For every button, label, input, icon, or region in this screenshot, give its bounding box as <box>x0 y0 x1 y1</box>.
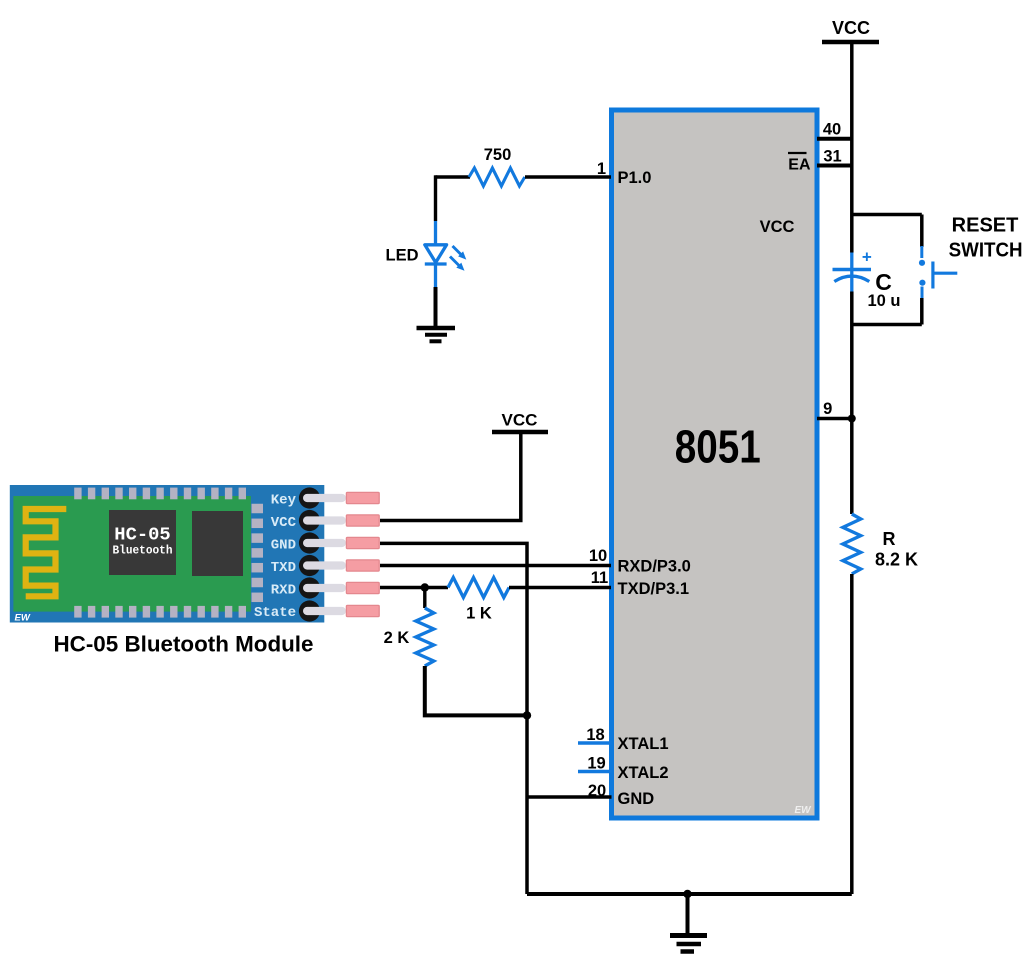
svg-text:8051: 8051 <box>675 421 761 473</box>
svg-text:10 u: 10 u <box>867 292 900 310</box>
wire LED vertical <box>434 175 437 221</box>
svg-text:GND: GND <box>271 537 296 553</box>
wire VCC left to module <box>380 432 521 521</box>
pin number 19 <box>587 755 605 773</box>
IC pin label EA (active low) <box>788 153 811 174</box>
pin 31 stub <box>817 164 852 168</box>
value 1 K <box>466 605 492 623</box>
capacitor C1 polarized <box>833 253 872 292</box>
svg-text:TXD/P3.1: TXD/P3.1 <box>618 580 690 598</box>
svg-text:XTAL2: XTAL2 <box>618 764 669 782</box>
IC pin label RXD/P3.0 <box>618 558 691 576</box>
svg-text:Key: Key <box>271 492 297 508</box>
wire VCC vertical lower <box>850 574 854 894</box>
resistor R1 8.2K <box>843 514 861 574</box>
HC-05 chip 1 <box>109 510 176 575</box>
IC label 8051 <box>675 421 761 473</box>
svg-text:P1.0: P1.0 <box>618 169 652 187</box>
value 750 <box>484 146 512 164</box>
HC-05 top pads <box>74 488 246 500</box>
pin number 10 <box>589 547 607 565</box>
svg-text:XTAL1: XTAL1 <box>618 735 669 753</box>
svg-text:1: 1 <box>597 160 606 178</box>
HC-05 chip 2 <box>192 511 243 576</box>
switch S1 pushbutton <box>919 246 957 298</box>
wire P1.0 horizontal right <box>525 175 611 178</box>
pin number 9 <box>823 400 832 418</box>
svg-text:HC-05 Bluetooth Module: HC-05 Bluetooth Module <box>54 632 314 657</box>
HC-05 bottom pads <box>74 606 246 618</box>
svg-text:11: 11 <box>591 569 608 587</box>
svg-text:40: 40 <box>823 121 841 139</box>
wire reset branch bottom <box>852 323 922 327</box>
junction pin 9 <box>848 415 856 423</box>
HC-05 header pin Key <box>299 487 379 508</box>
svg-text:SWITCH: SWITCH <box>949 240 1023 262</box>
wire 2K upper lead <box>423 588 426 609</box>
power VCC left symbol <box>492 411 548 433</box>
HC-05 header pin RXD <box>299 577 379 598</box>
HC-05 header pin State <box>299 600 379 621</box>
IC pin label GND <box>618 790 655 808</box>
wire P1.0 horizontal left <box>436 175 471 178</box>
svg-text:EA: EA <box>788 157 811 174</box>
svg-text:RXD/P3.0: RXD/P3.0 <box>618 558 691 576</box>
svg-text:1 K: 1 K <box>466 605 492 623</box>
svg-text:2 K: 2 K <box>384 629 410 647</box>
IC pin label XTAL2 <box>618 764 669 782</box>
wire reset branch top <box>852 213 922 217</box>
resistor R2 750 <box>469 168 525 186</box>
HC-05 pin label State <box>254 605 296 621</box>
svg-text:9: 9 <box>823 400 832 418</box>
svg-text:RXD: RXD <box>271 582 296 598</box>
HC-05 header pin VCC <box>299 510 379 531</box>
HC-05 module watermark EW <box>15 613 31 624</box>
power VCC top symbol <box>822 18 879 42</box>
wire bottom rail <box>527 892 852 896</box>
svg-text:VCC: VCC <box>502 411 538 430</box>
svg-text:VCC: VCC <box>760 218 795 236</box>
svg-text:VCC: VCC <box>832 18 870 38</box>
HC-05 pin label Key <box>271 492 297 508</box>
HC-05 pin label VCC <box>271 515 297 531</box>
svg-text:10: 10 <box>589 547 607 565</box>
svg-text:EW: EW <box>15 613 31 624</box>
module caption HC-05 Bluetooth Module <box>54 632 314 657</box>
wire GND row to bottom rail <box>380 543 527 894</box>
svg-text:RESET: RESET <box>952 215 1019 237</box>
label RESET SWITCH <box>949 215 1023 262</box>
HC-05 header pin TXD <box>299 555 379 576</box>
label LED <box>386 247 419 265</box>
junction RXD / 2K <box>421 583 429 591</box>
wire VCC main vertical upper <box>850 42 854 253</box>
LED arrows <box>450 246 466 271</box>
wire switch upper lead <box>920 215 924 248</box>
wire RXD row left <box>380 586 448 589</box>
svg-text:Bluetooth: Bluetooth <box>113 544 173 558</box>
resistor R3 1K <box>448 578 509 598</box>
IC watermark EW <box>794 805 812 816</box>
resistor R4 2K <box>416 608 434 666</box>
pin number 1 <box>597 160 606 178</box>
junction bottom rail <box>683 890 691 898</box>
wire pin 20 GND <box>527 795 612 799</box>
wire TXD row to pin 10 <box>380 564 611 567</box>
pin 18 stub <box>578 741 612 744</box>
label R <box>883 529 896 549</box>
svg-text:+: + <box>862 248 872 267</box>
svg-text:20: 20 <box>588 782 606 800</box>
svg-text:LED: LED <box>386 247 419 265</box>
svg-text:VCC: VCC <box>271 515 297 531</box>
svg-text:GND: GND <box>618 790 655 808</box>
ground LED <box>417 328 456 341</box>
wire RXD row right to pin 11 <box>509 586 611 589</box>
svg-text:EW: EW <box>794 805 812 816</box>
HC-05 pin label TXD <box>271 560 296 576</box>
svg-text:R: R <box>883 529 896 549</box>
HC-05 pin label RXD <box>271 582 296 598</box>
HC-05 module green PCB <box>13 496 251 612</box>
capacitor plus sign <box>862 248 872 267</box>
pin 40 stub <box>817 137 852 141</box>
capacitor label C <box>875 269 892 295</box>
wire LED cathode to ground <box>434 287 438 328</box>
HC-05 antenna trace <box>26 509 67 596</box>
pin number 20 <box>588 782 606 800</box>
HC-05 chip 1 text <box>113 526 173 558</box>
IC pin label XTAL1 <box>618 735 669 753</box>
capacitor value 10 u <box>867 292 900 310</box>
svg-text:State: State <box>254 605 296 621</box>
wire 2K lower lead to GND net <box>425 666 527 715</box>
IC pin label TXD/P3.1 <box>618 580 690 598</box>
svg-text:18: 18 <box>586 726 604 744</box>
svg-text:31: 31 <box>823 148 841 166</box>
value 8.2 K <box>875 550 918 570</box>
svg-text:8.2 K: 8.2 K <box>875 550 918 570</box>
wire VCC vertical middle <box>850 292 854 515</box>
wire switch lower lead <box>920 298 924 325</box>
svg-text:750: 750 <box>484 146 512 164</box>
pin 9 stub <box>817 417 852 421</box>
HC-05 module board <box>10 485 325 623</box>
LED D1 <box>425 221 447 287</box>
HC-05 pin label GND <box>271 537 296 553</box>
HC-05 header pin GND <box>299 532 379 553</box>
pin number 40 <box>823 121 841 139</box>
value 2 K <box>384 629 410 647</box>
IC internal VCC label <box>760 218 795 236</box>
pin 19 stub <box>578 770 612 773</box>
junction 2K / GND net <box>523 711 531 719</box>
pin number 18 <box>586 726 604 744</box>
IC pin label P1.0 <box>618 169 652 187</box>
svg-text:19: 19 <box>587 755 605 773</box>
pin number 11 <box>591 569 608 587</box>
HC-05 right pads <box>252 504 264 602</box>
IC U1 8051 body <box>612 110 818 818</box>
svg-text:HC-05: HC-05 <box>114 526 170 546</box>
svg-text:TXD: TXD <box>271 560 296 576</box>
ground bottom <box>670 894 707 952</box>
pin number 31 <box>823 148 841 166</box>
